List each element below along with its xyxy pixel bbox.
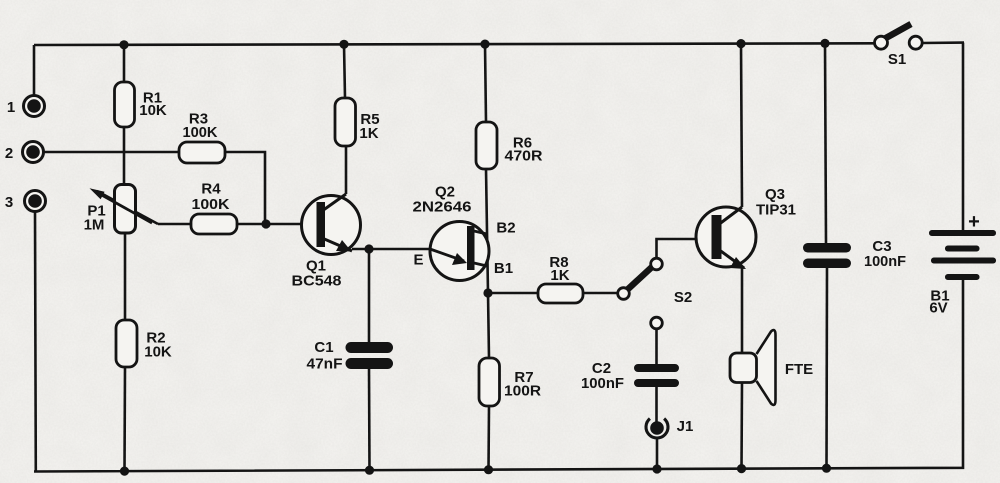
- potentiometer P1: [84, 185, 152, 234]
- svg-text:B2: B2: [496, 220, 515, 237]
- wire R1 to P1: [123, 127, 126, 183]
- node top rail / Q3 collector: [736, 39, 745, 48]
- jack J1: [646, 418, 693, 438]
- resistor R2: [116, 320, 172, 367]
- wire Q1 collector to R5: [345, 146, 348, 194]
- node bottom rail / FTE: [737, 464, 746, 473]
- node B1 of Q2 / R8 junction: [483, 288, 492, 297]
- transistor U1 Q2 unijunction: [413, 184, 516, 281]
- terminal 2: [5, 142, 44, 163]
- wire P1 wiper diagonal: [97, 191, 158, 224]
- wire terminal 3 to bottom rail: [34, 212, 37, 471]
- node bottom rail / C3: [822, 464, 831, 473]
- node top rail / C3: [820, 39, 829, 48]
- svg-text:1M: 1M: [84, 217, 105, 234]
- wire R2 to bottom rail: [123, 367, 126, 471]
- svg-text:FTE: FTE: [785, 361, 813, 378]
- wire B1 node down to R7: [488, 293, 489, 358]
- wire P1 to R2: [124, 233, 127, 320]
- svg-text:R4: R4: [201, 181, 221, 198]
- node A R3/R4/Q1 base junction: [261, 219, 270, 228]
- svg-text:+: +: [968, 211, 980, 233]
- node top rail / R1: [119, 40, 128, 49]
- wire FTE to bottom rail: [740, 382, 743, 469]
- wire node A to Q1 base: [237, 223, 318, 226]
- transistor Q3: [696, 186, 796, 269]
- wire R4 left stub: [158, 223, 191, 226]
- svg-text:100nF: 100nF: [581, 375, 624, 392]
- svg-text:TIP31: TIP31: [756, 202, 796, 219]
- wire node B down to C1: [368, 249, 371, 342]
- node B Q1 emitter junction: [364, 244, 373, 253]
- svg-text:BC548: BC548: [292, 273, 342, 290]
- svg-text:100K: 100K: [183, 124, 218, 141]
- terminal 3: [5, 191, 46, 212]
- switch S2: [618, 258, 692, 329]
- wire top rail to R1: [123, 45, 126, 82]
- resistor R4: [191, 181, 237, 235]
- wire battery top feed: [962, 43, 965, 231]
- resistor R7: [479, 358, 541, 406]
- svg-text:1K: 1K: [359, 125, 378, 142]
- wire terminal 1 to top rail: [33, 45, 36, 95]
- wire top rail left of S1: [34, 43, 875, 45]
- node top rail / R5: [339, 40, 348, 49]
- node top rail / R6: [480, 40, 489, 49]
- wire C1 to bottom rail: [368, 368, 371, 470]
- wire R5 to top rail: [344, 44, 345, 98]
- svg-text:1: 1: [7, 99, 15, 116]
- capacitor C3: [803, 238, 906, 270]
- resistor R5: [335, 98, 380, 146]
- svg-text:3: 3: [5, 194, 13, 211]
- wire Q3 collector to top rail: [741, 44, 742, 207]
- wire S2 pole to Q3 base: [657, 239, 713, 258]
- capacitor C1: [307, 339, 394, 373]
- svg-text:1K: 1K: [550, 267, 569, 284]
- resistor R6: [476, 122, 543, 169]
- wire top rail to C3: [825, 43, 826, 243]
- node bottom rail / C1: [365, 466, 374, 475]
- battery B1: [929, 211, 996, 317]
- svg-text:C1: C1: [314, 339, 333, 356]
- wire B1 node to R8: [488, 292, 538, 295]
- resistor R1: [115, 82, 167, 127]
- wire top rail right of S1: [922, 41, 964, 44]
- wire terminal 2 to R3: [44, 151, 179, 154]
- svg-text:2: 2: [5, 145, 13, 162]
- switch S1: [875, 24, 923, 68]
- svg-text:B1: B1: [494, 260, 513, 277]
- speaker FTE: [730, 330, 813, 405]
- wire Q3 emitter to FTE: [741, 266, 744, 353]
- wire R7 to bottom rail: [487, 406, 490, 470]
- wire R8 to S2 throw: [583, 292, 618, 295]
- wire C2 to J1: [655, 387, 658, 422]
- wire S2 lower throw to C2: [655, 329, 658, 364]
- node bottom rail / J1: [652, 464, 661, 473]
- svg-text:10K: 10K: [139, 102, 167, 119]
- resistor R3: [179, 111, 225, 164]
- svg-text:E: E: [413, 252, 423, 269]
- svg-text:47nF: 47nF: [307, 356, 343, 373]
- svg-text:2N2646: 2N2646: [413, 199, 472, 216]
- capacitor C2: [581, 360, 679, 392]
- terminal 1: [7, 96, 45, 117]
- wire Q1 emitter node to Q2 emitter: [352, 248, 430, 251]
- node bottom rail / R7: [484, 465, 493, 474]
- wire J1 to bottom rail: [656, 438, 659, 469]
- svg-text:100nF: 100nF: [864, 253, 906, 270]
- svg-text:10K: 10K: [144, 344, 172, 361]
- svg-text:100R: 100R: [504, 383, 541, 400]
- wire bottom rail and battery bottom feed: [34, 280, 963, 472]
- svg-text:Q3: Q3: [765, 186, 785, 203]
- svg-text:6V: 6V: [929, 300, 947, 317]
- wire C3 to bottom rail: [825, 268, 828, 468]
- node bottom rail / R2: [120, 467, 129, 476]
- resistor R8: [538, 254, 583, 303]
- svg-text:J1: J1: [677, 418, 694, 435]
- svg-text:470R: 470R: [505, 148, 543, 165]
- wire R6 down to B1 node: [486, 169, 488, 293]
- svg-text:S1: S1: [888, 51, 906, 68]
- wire R3 to node A: [225, 152, 265, 224]
- transistor Q1: [292, 194, 361, 290]
- svg-text:S2: S2: [674, 289, 692, 306]
- wire top rail to R6: [485, 44, 486, 122]
- svg-text:100K: 100K: [192, 196, 230, 213]
